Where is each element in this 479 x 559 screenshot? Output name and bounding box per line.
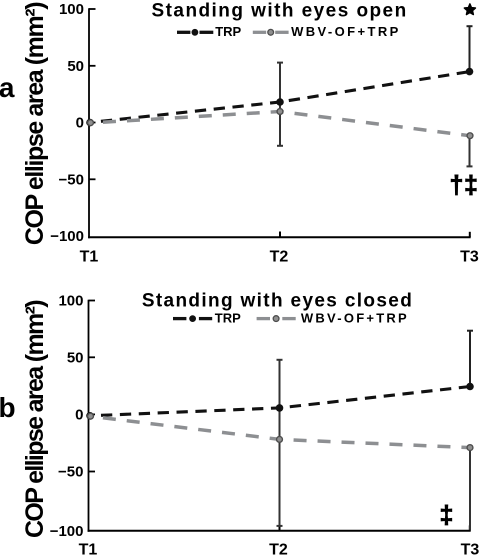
error bar T2 (top chart) xyxy=(277,63,283,146)
svg-text:T3: T3 xyxy=(461,541,479,558)
svg-text:Standing with eyes open: Standing with eyes open xyxy=(152,0,408,21)
legend label WBV-OF+TRP (top) xyxy=(291,24,401,39)
error bar WBV T3 lower (top chart) xyxy=(467,136,473,167)
y tick label 0 (bottom) xyxy=(75,406,83,423)
WBV marker T3 (top) xyxy=(467,133,473,139)
y tick label 100 (top) xyxy=(59,1,84,18)
error bar TRP T3 upper (bottom chart) xyxy=(467,331,473,387)
svg-text:0: 0 xyxy=(75,406,83,423)
y tick label -50 (bottom) xyxy=(58,464,83,481)
x tick label T3 (top) xyxy=(460,249,479,266)
TRP series line (top chart) xyxy=(90,72,470,123)
svg-text:−100: −100 xyxy=(50,523,84,540)
svg-text:T2: T2 xyxy=(269,541,288,558)
svg-text:T3: T3 xyxy=(460,249,479,266)
panel label a xyxy=(0,72,15,103)
legend sample line TRP (top) xyxy=(177,29,213,36)
svg-text:100: 100 xyxy=(59,1,84,18)
panel label b xyxy=(0,392,16,423)
TRP series line (bottom chart) xyxy=(90,387,470,416)
dagger annotations (top chart) xyxy=(449,171,478,199)
TRP marker T1 (bottom) xyxy=(86,412,94,420)
svg-text:Standing with eyes closed: Standing with eyes closed xyxy=(142,291,413,312)
double dagger annotation (bottom chart) xyxy=(439,501,453,529)
svg-text:T1: T1 xyxy=(80,249,99,266)
WBV marker T1 (top) xyxy=(88,120,94,126)
svg-text:−100: −100 xyxy=(50,228,84,245)
x-axis line (top chart) xyxy=(88,236,471,238)
chart a title xyxy=(152,0,408,21)
x-axis ticks (bottom chart) xyxy=(280,525,470,531)
svg-text:TRP: TRP xyxy=(215,24,241,39)
y tick label -100 (top) xyxy=(50,228,84,245)
y-axis line (top chart) xyxy=(88,8,90,238)
TRP marker T3 (bottom) xyxy=(466,383,474,391)
legend sample line WBV-OF+TRP (bottom) xyxy=(257,316,296,322)
TRP marker T2 (top) xyxy=(276,98,284,106)
svg-text:50: 50 xyxy=(67,58,84,75)
x tick label T2 (bottom) xyxy=(269,541,288,558)
svg-text:COP ellipse area (mm²): COP ellipse area (mm²) xyxy=(21,2,49,245)
y-axis title (bottom chart) xyxy=(21,300,49,538)
y tick label -50 (top) xyxy=(59,171,84,188)
x tick label T1 (bottom) xyxy=(79,541,98,558)
WBV marker T2 (top) xyxy=(277,109,283,115)
legend label WBV-OF+TRP (bottom) xyxy=(301,311,409,326)
error bar TRP T3 upper (top chart) xyxy=(467,26,473,71)
y tick label 0 (top) xyxy=(76,115,84,132)
legend sample line TRP (bottom) xyxy=(173,315,212,322)
svg-text:TRP: TRP xyxy=(215,311,241,326)
WBV marker T2 (bottom) xyxy=(277,436,283,442)
y-axis line (bottom chart) xyxy=(88,300,90,532)
svg-text:a: a xyxy=(0,72,15,103)
x tick label T2 (top) xyxy=(270,249,289,266)
y tick label 100 (bottom) xyxy=(58,293,83,310)
x-axis ticks (top chart) xyxy=(280,232,470,238)
chart b title xyxy=(142,291,413,312)
x tick label T3 (bottom) xyxy=(461,541,479,558)
svg-text:WBV-OF+TRP: WBV-OF+TRP xyxy=(291,24,401,39)
significance star (top chart) xyxy=(464,4,475,15)
y-axis ticks (bottom chart) xyxy=(89,301,96,472)
svg-text:−50: −50 xyxy=(59,171,84,188)
svg-text:COP ellipse area (mm²): COP ellipse area (mm²) xyxy=(21,300,49,538)
svg-text:b: b xyxy=(0,392,16,423)
svg-text:T1: T1 xyxy=(79,541,98,558)
y tick label 50 (bottom) xyxy=(67,349,84,366)
svg-text:−50: −50 xyxy=(58,464,83,481)
legend label TRP (top) xyxy=(215,24,241,39)
y tick label 50 (top) xyxy=(67,58,84,75)
y tick label -100 (bottom) xyxy=(50,523,84,540)
svg-text:†‡: †‡ xyxy=(449,171,478,199)
legend sample line WBV-OF+TRP (top) xyxy=(253,29,289,35)
x-axis line (bottom chart) xyxy=(88,530,471,532)
y-axis title (top chart) xyxy=(21,2,49,245)
error bar T2 (bottom chart) xyxy=(277,360,283,526)
TRP marker T2 (bottom) xyxy=(276,404,284,412)
error bar WBV T3 lower (bottom chart) xyxy=(469,448,471,530)
x tick label T1 (top) xyxy=(80,249,99,266)
svg-text:100: 100 xyxy=(58,293,83,310)
y-axis ticks (top chart) xyxy=(89,9,96,179)
svg-text:‡: ‡ xyxy=(439,501,453,529)
WBV marker T1 (bottom) xyxy=(88,413,94,419)
TRP marker T1 (top) xyxy=(86,119,94,127)
WBV-OF+TRP series line (top chart) xyxy=(90,112,470,136)
TRP marker T3 (top) xyxy=(466,68,474,76)
svg-text:0: 0 xyxy=(76,115,84,132)
svg-text:50: 50 xyxy=(67,349,84,366)
svg-text:T2: T2 xyxy=(270,249,289,266)
WBV marker T3 (bottom) xyxy=(467,445,473,451)
WBV-OF+TRP series line (bottom chart) xyxy=(90,416,470,447)
svg-text:WBV-OF+TRP: WBV-OF+TRP xyxy=(301,311,409,326)
legend label TRP (bottom) xyxy=(215,311,241,326)
